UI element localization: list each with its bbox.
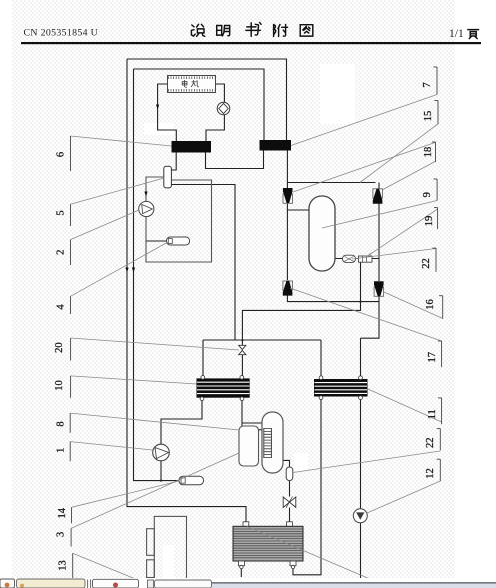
pipe HX1 right leg to HX2 left leg [206, 151, 264, 169]
leader 11 [368, 389, 442, 422]
pipe valve21 branch [241, 340, 243, 380]
filter 19 [343, 255, 356, 262]
bracket 18 [435, 142, 437, 162]
pipe HX1 left leg down to valve [172, 153, 177, 171]
pipe HX11 top-left leg [320, 340, 322, 379]
pipe rrect8 to coil [256, 429, 271, 431]
leader 16 [384, 292, 443, 319]
title char 附 [274, 25, 288, 37]
svg-text:2: 2 [56, 250, 67, 255]
pipe filter run [335, 258, 379, 260]
pipe cylinder to capsule22b [283, 460, 290, 467]
bracket 22a [435, 248, 437, 272]
pipe valve to block13 [289, 508, 291, 523]
pipe HX11 bottom-left to block13 jog [293, 397, 321, 575]
svg-text:9: 9 [422, 192, 433, 197]
svg-text:12: 12 [425, 468, 436, 479]
bracket 22b [439, 429, 441, 451]
heat exchanger 10 [197, 376, 250, 401]
check valve 16 (CV4, down) [374, 281, 384, 296]
pipe outer loop left/bottom [127, 59, 246, 523]
leader 4 [71, 242, 169, 296]
scan whiteout patches [144, 64, 355, 579]
svg-text:11: 11 [427, 409, 438, 419]
pipe pump1 down [160, 461, 162, 481]
svg-text:18: 18 [423, 147, 434, 158]
pipe HX2 right leg down [286, 151, 288, 189]
leader 17 [290, 288, 442, 341]
leader 19 [366, 209, 438, 257]
pipe block13 bottom-left stub [240, 566, 242, 577]
bracket 14 [71, 507, 73, 523]
plate block 13hx [233, 522, 303, 569]
svg-text:7: 7 [422, 82, 433, 87]
check valve 18a (CV1, down) [283, 188, 293, 203]
bracket 10 [70, 376, 72, 398]
svg-text:4: 4 [56, 304, 67, 310]
svg-text:14: 14 [57, 507, 68, 518]
tank 9 [309, 196, 335, 271]
leader 1 [70, 442, 152, 450]
pipe HX10 bottom-left to pump1 [161, 398, 202, 445]
svg-text:10: 10 [54, 380, 65, 391]
leader 6 [71, 136, 172, 146]
pipe engine loop left [158, 84, 177, 141]
pipe CV1-CV2 crossover [287, 182, 375, 184]
compressor shell 8 [239, 426, 259, 466]
title char 明 [217, 26, 230, 36]
bracket 2 [70, 240, 72, 265]
arrow tank edge [144, 192, 147, 197]
indoor unit box 14 [147, 516, 187, 580]
bracket 17 [441, 341, 443, 367]
heater capsule 4 [167, 237, 190, 245]
pump 2 [139, 201, 154, 216]
cylinder 3 [262, 412, 283, 473]
pipe header y340 [203, 339, 321, 341]
svg-text:22: 22 [421, 258, 432, 269]
coil inside cylinder [264, 428, 272, 458]
leader 7 [291, 95, 437, 146]
check valve 17 (CV3, up) [283, 281, 293, 296]
leader 20 [71, 338, 239, 350]
heat exchanger 6 (HX1) [172, 141, 212, 153]
flow arrows [125, 105, 159, 273]
leader 13 [73, 553, 150, 585]
svg-text:13: 13 [57, 560, 68, 571]
svg-text:CN 205351854 U: CN 205351854 U [24, 27, 99, 38]
pipe outer loop top/right [127, 59, 287, 140]
heat exchanger 7 (HX2) [260, 140, 292, 151]
pipe drop line x360 [242, 259, 360, 341]
bracket 7 [436, 67, 438, 95]
bracket 13 [72, 553, 74, 578]
pipe HX10 top-left leg [202, 340, 204, 378]
capsule 22b [286, 467, 293, 481]
pipe branch to cylinder [242, 422, 262, 424]
bracket 4 [70, 296, 72, 314]
leader stray bottom [247, 527, 377, 583]
pipe HX11 bottom-right long drop [360, 397, 362, 581]
bracket 6 [70, 136, 72, 171]
bracket 16 [442, 296, 444, 319]
title char 说 [191, 24, 204, 36]
valve 5 [164, 166, 172, 188]
svg-text:19: 19 [424, 216, 435, 227]
svg-text:3: 3 [55, 532, 66, 537]
svg-text:15: 15 [423, 111, 434, 122]
svg-text:17: 17 [427, 352, 438, 363]
svg-text:1: 1 [55, 448, 66, 453]
svg-text:16: 16 [425, 299, 436, 310]
pipe CV1 down [286, 204, 288, 281]
pipe second loop top/right [134, 69, 265, 140]
arrow outer left [125, 268, 128, 273]
pipe tank inlet [287, 209, 310, 211]
svg-text:6: 6 [56, 152, 67, 157]
pipe engine loop right [206, 84, 224, 141]
pipe CV4 down to corner [361, 296, 380, 380]
check valve 18b (CV2, up) [373, 189, 383, 204]
expansion valve 13v [283, 497, 296, 508]
svg-text:5: 5 [56, 210, 67, 215]
svg-text:22: 22 [425, 438, 436, 449]
pipe second loop left/bottom [134, 69, 180, 481]
bracket 5 [70, 204, 72, 226]
water tank box 2 [146, 177, 212, 262]
sight glass 22a [359, 253, 373, 262]
junction dots [160, 301, 362, 482]
leader 14 [72, 481, 179, 507]
bracket 3 [70, 528, 72, 546]
pump 12 [353, 509, 367, 523]
bracket 19 [437, 208, 439, 229]
pipe CV3 down and across [287, 296, 379, 302]
leader 18a [293, 143, 435, 193]
leader 22b [293, 451, 440, 473]
leader 5 [71, 178, 165, 204]
svg-text:20: 20 [54, 342, 65, 353]
bracket 15 [437, 101, 439, 125]
pipe HX10 bottom-right down [241, 398, 243, 426]
leader 9 [322, 201, 437, 229]
valve 21 [239, 345, 246, 354]
header rule [21, 42, 481, 44]
bracket 8 [69, 413, 71, 433]
leader 3 [71, 453, 239, 528]
bracket 12 [439, 459, 441, 481]
arrow engine loop [156, 105, 159, 110]
leader 18b [383, 162, 435, 190]
heater capsule 14 [179, 476, 204, 485]
header char 页 [468, 30, 479, 39]
leader 15 [360, 124, 438, 183]
pipe CV2 to CV4 [378, 204, 380, 282]
engine box [168, 76, 216, 93]
pipe CV2 stub [378, 183, 380, 189]
svg-text:8: 8 [55, 421, 66, 426]
pump engine loop [217, 102, 230, 115]
pipe capsule22b to valve [289, 481, 291, 497]
leader 2 [71, 210, 140, 240]
pipe capsule4 stub [146, 240, 167, 242]
title char 书 [246, 22, 261, 36]
leader 8 [70, 413, 239, 430]
bracket 1 [69, 442, 71, 462]
leader 22a [352, 249, 436, 260]
bracket 11 [441, 398, 443, 424]
pump 1 [153, 444, 170, 461]
pipe valve5 to riser [172, 185, 236, 341]
title char 图 [300, 25, 313, 36]
leader 10 [71, 376, 197, 384]
text 电机 [182, 80, 199, 87]
arrow second left [132, 268, 135, 273]
leader 12 [367, 481, 440, 513]
bracket 9 [436, 179, 438, 201]
svg-text:1/1: 1/1 [449, 28, 464, 40]
heat exchanger 11 [314, 376, 368, 400]
bracket 20 [70, 338, 72, 361]
